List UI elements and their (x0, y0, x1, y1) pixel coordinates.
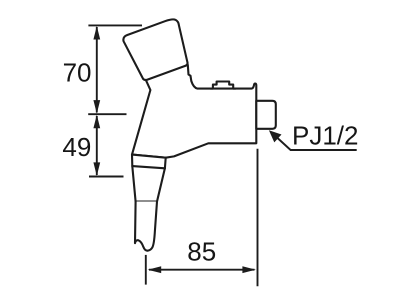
arrowhead 85 right (242, 266, 256, 273)
spout pipe with break (135, 202, 157, 251)
svg-text:PJ1/2: PJ1/2 (292, 120, 359, 150)
adjustment screw on body top (210, 82, 235, 89)
extension line top (70 upper) (88, 24, 142, 26)
svg-text:70: 70 (63, 57, 92, 87)
dimension line 70 (96, 27, 98, 113)
leader line PJ1/2 (272, 133, 357, 151)
arrowhead 70 down (93, 100, 100, 114)
faucet body (132, 65, 256, 158)
extension line 85 right (257, 149, 259, 287)
arrowhead 49 down (93, 162, 100, 176)
aerator / spout head (132, 155, 166, 202)
extension line 85 left (145, 255, 147, 285)
extension line middle (70/49) (88, 113, 126, 115)
dimension line 85 (149, 269, 255, 271)
extension line bottom (49 lower) (89, 176, 124, 178)
arrowhead 70 up (93, 26, 100, 40)
handle (123, 19, 187, 80)
aerator ring line (132, 166, 165, 168)
PJ1/2 wall connector (256, 101, 276, 129)
svg-text:49: 49 (62, 132, 91, 162)
svg-text:85: 85 (187, 236, 216, 266)
dimension line 49 (96, 116, 98, 175)
arrowhead 49 up (93, 115, 100, 129)
arrowhead PJ1/2 leader (269, 130, 282, 142)
arrowhead 85 left (148, 266, 162, 273)
